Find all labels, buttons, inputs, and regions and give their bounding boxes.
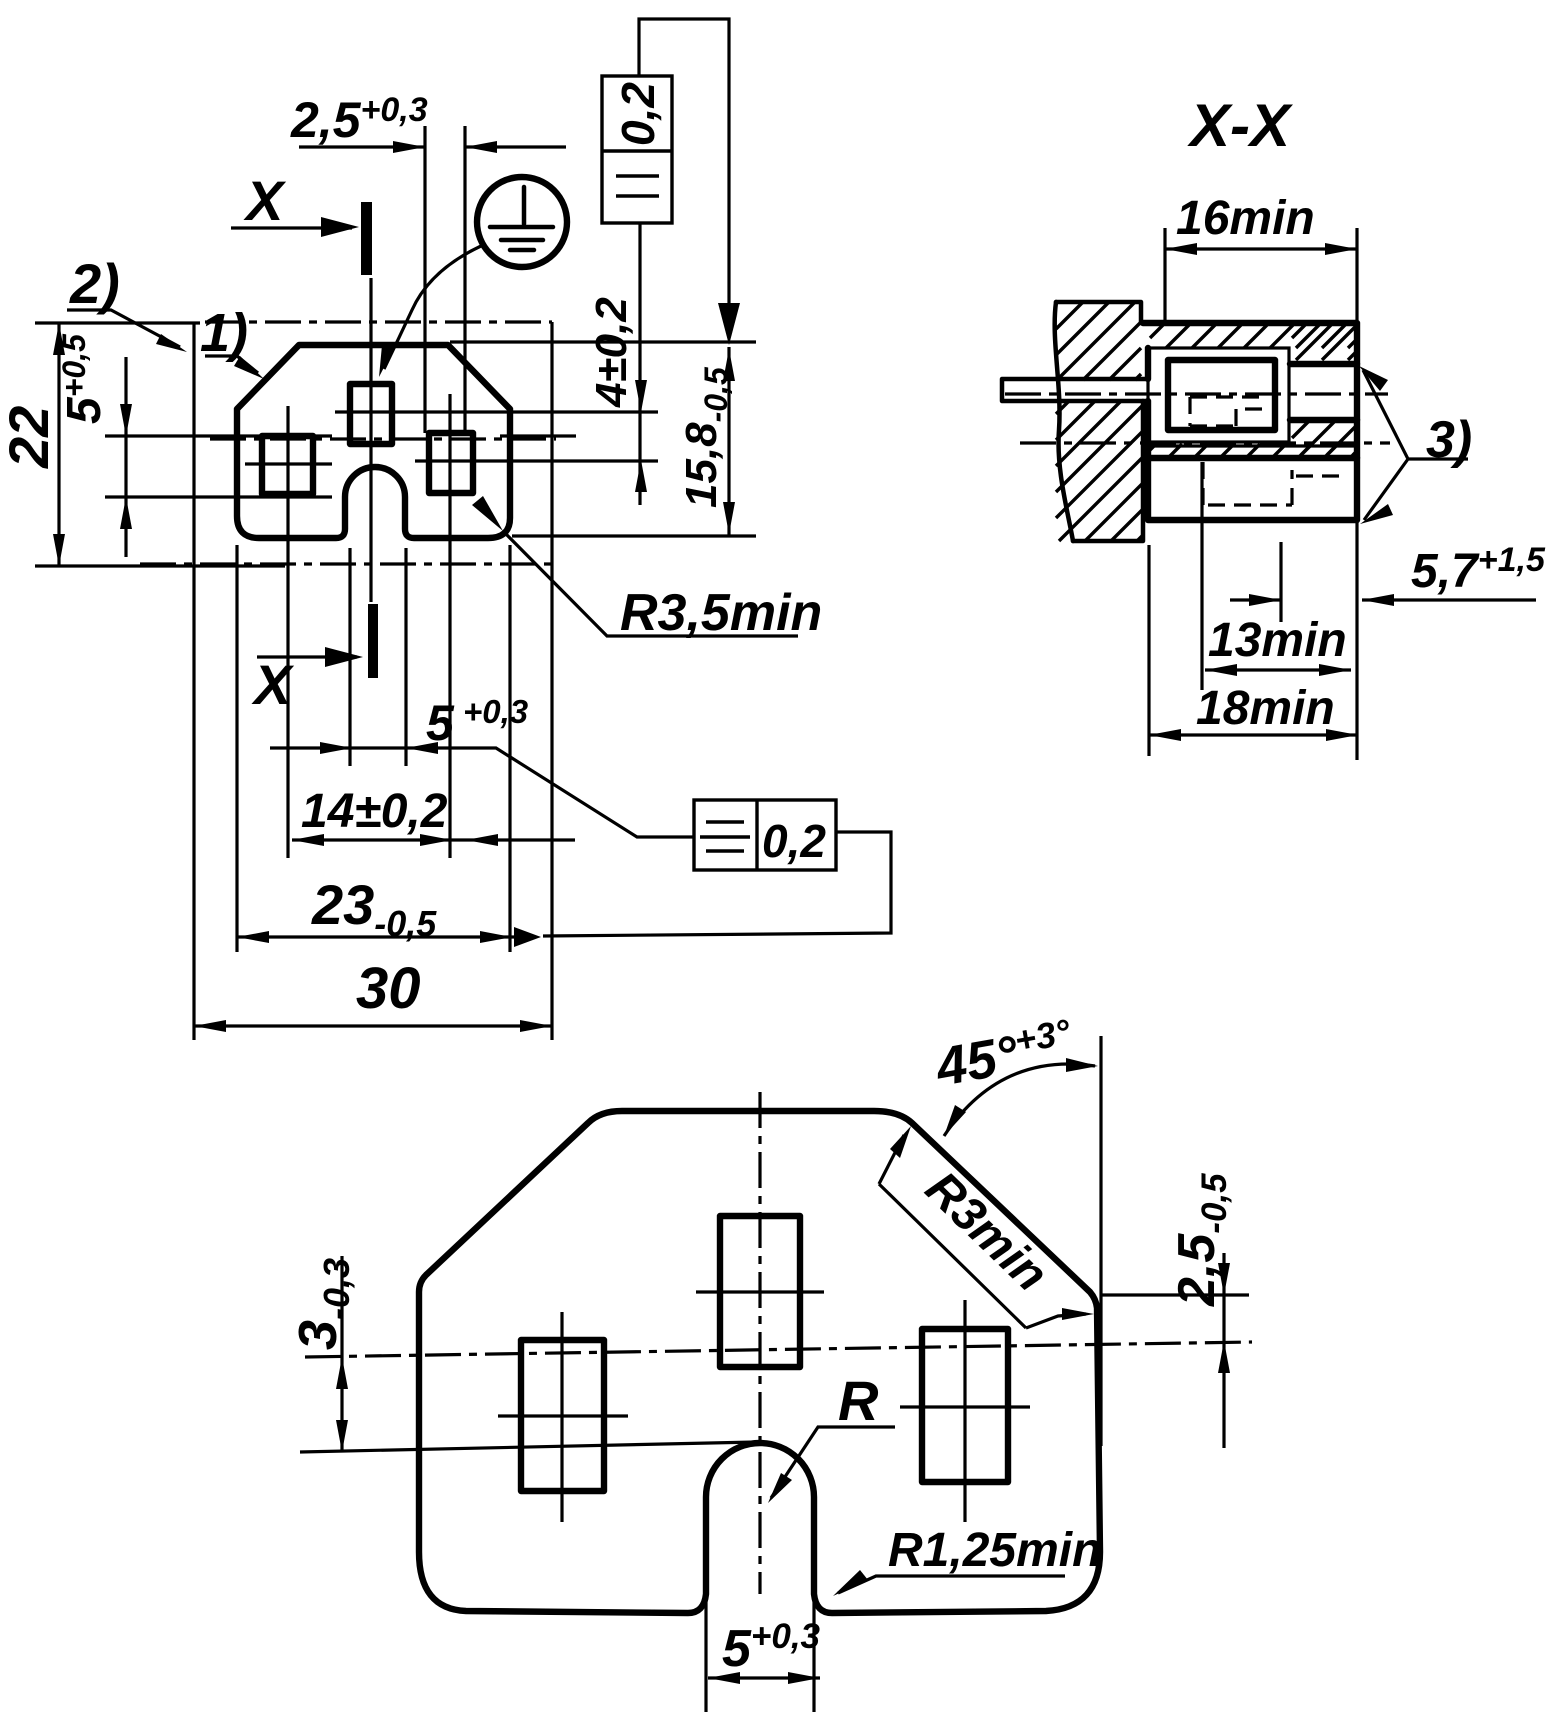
dimension 45deg arc	[944, 1064, 1095, 1136]
recess shelf lines right	[1290, 364, 1357, 420]
leader earthing symbol	[384, 246, 481, 369]
dimension 18min	[1149, 733, 1358, 736]
centerline left hole vertical	[286, 406, 289, 858]
svg-text:30: 30	[356, 956, 421, 1021]
centerline earth hole vertical	[369, 278, 372, 602]
connector body outline	[1143, 323, 1357, 520]
hidden contact lower dashed	[1203, 462, 1345, 505]
svg-text:3): 3)	[1426, 411, 1472, 469]
dimension 5,7+1,5	[1230, 598, 1536, 601]
extension hole top right tick	[500, 434, 576, 437]
aperture outline	[237, 345, 510, 538]
tolerance frame parallelism 0,2 lower	[694, 800, 836, 870]
slot top tangent line for 3-0,3	[300, 1442, 756, 1452]
svg-text:4±0,2: 4±0,2	[587, 297, 636, 408]
dimension 4±0,2	[638, 223, 641, 505]
svg-text:0,2: 0,2	[612, 82, 664, 146]
extension line earth axis y412	[335, 410, 658, 413]
right hole centerlines	[900, 1300, 1030, 1522]
right pin hole enlarged	[922, 1329, 1008, 1482]
centerline left hole horizontal	[245, 462, 332, 465]
leader lower frame to datum	[543, 832, 891, 936]
svg-text:X-X: X-X	[1187, 92, 1294, 159]
panel wall outline	[1056, 302, 1143, 541]
leader R3,5min	[472, 496, 503, 531]
main vertical centerline	[758, 1092, 761, 1594]
mounting plate tongue	[1002, 379, 1148, 401]
svg-text:X: X	[251, 653, 295, 716]
hidden contact upper dashed	[1190, 397, 1268, 426]
tolerance frame parallelism 0,2 top	[602, 76, 672, 223]
earth hole centerline horizontal	[696, 1290, 824, 1293]
body hatching top wall	[1150, 325, 1355, 348]
svg-text:13min: 13min	[1208, 614, 1347, 667]
earth pin hole	[350, 384, 392, 444]
face outline	[419, 1111, 1100, 1613]
svg-text:2): 2)	[69, 252, 120, 315]
leader R	[771, 1427, 895, 1498]
dimension 14±0,2	[292, 838, 575, 841]
dimension 5+0,3 bottom	[708, 1676, 820, 1679]
left pin hole	[262, 436, 313, 494]
centerline main horizontal	[210, 437, 556, 440]
body hatching right patch lower	[1292, 422, 1357, 455]
contact box outer	[1148, 348, 1289, 442]
body mid wall lines	[1148, 444, 1357, 447]
panel hatching lower	[1056, 401, 1143, 541]
dimension 15,8-0,5	[727, 347, 730, 536]
svg-text:22: 22	[0, 406, 60, 469]
panel cutout rectangle item 2	[205, 320, 552, 323]
callout R3min	[879, 1135, 1086, 1328]
dimension 13min	[1205, 668, 1351, 671]
svg-text:0,2: 0,2	[762, 815, 826, 867]
extension line chamfer end vertical	[1099, 1036, 1102, 1446]
left hole centerlines	[498, 1312, 628, 1522]
svg-text:R: R	[838, 1369, 879, 1432]
extension line chamfer end horizontal	[1101, 1293, 1249, 1296]
svg-text:14±0,2: 14±0,2	[301, 785, 448, 838]
dimension 30	[194, 1024, 552, 1027]
section axis centerline	[1020, 441, 1390, 444]
dimension 2,5+0,3	[299, 126, 566, 433]
label 3)	[1363, 370, 1468, 520]
panel hatching upper	[1056, 302, 1141, 380]
svg-text:X: X	[243, 169, 287, 232]
earth pin hole enlarged	[720, 1216, 800, 1367]
dimension 5+0,5	[105, 357, 332, 557]
extension lines below section	[1149, 462, 1357, 760]
extension top edge right	[450, 340, 756, 343]
centerline right hole vertical	[448, 394, 451, 858]
leader tolerance frame to datum	[639, 19, 729, 307]
svg-text:16min: 16min	[1176, 192, 1315, 245]
section mark X bottom	[368, 604, 378, 678]
right pin hole	[429, 433, 473, 493]
svg-text:R3,5min: R3,5min	[620, 584, 822, 642]
extension bottom edge right	[512, 534, 756, 537]
contact box inner	[1168, 360, 1275, 430]
svg-text:18min: 18min	[1196, 682, 1335, 735]
dimension 3-0,3	[340, 1256, 343, 1452]
svg-text:R1,25min: R1,25min	[888, 1524, 1101, 1577]
section mark X top	[361, 202, 372, 275]
dimension 22	[35, 323, 285, 566]
leader R1,25min	[838, 1576, 1065, 1593]
extension line hole axis y461	[415, 459, 658, 462]
slot width extension lines	[706, 1500, 814, 1712]
dimension 23-0,5	[237, 935, 514, 938]
earthing symbol	[477, 177, 567, 267]
svg-text:1): 1)	[200, 303, 248, 363]
contact axis centerline upper	[1005, 392, 1388, 395]
main horizontal centerline	[305, 1342, 1252, 1357]
dimension 16min	[1165, 228, 1357, 322]
left pin hole enlarged	[521, 1340, 604, 1491]
body hatching right patch	[1292, 325, 1357, 360]
dimension 5+0,3 front view	[270, 748, 694, 837]
dimension 2,5-0,5	[1222, 1253, 1225, 1448]
panel break line wavy	[1055, 302, 1073, 541]
extension lines below plate	[235, 545, 238, 952]
body hatching mid wall	[1150, 444, 1355, 457]
